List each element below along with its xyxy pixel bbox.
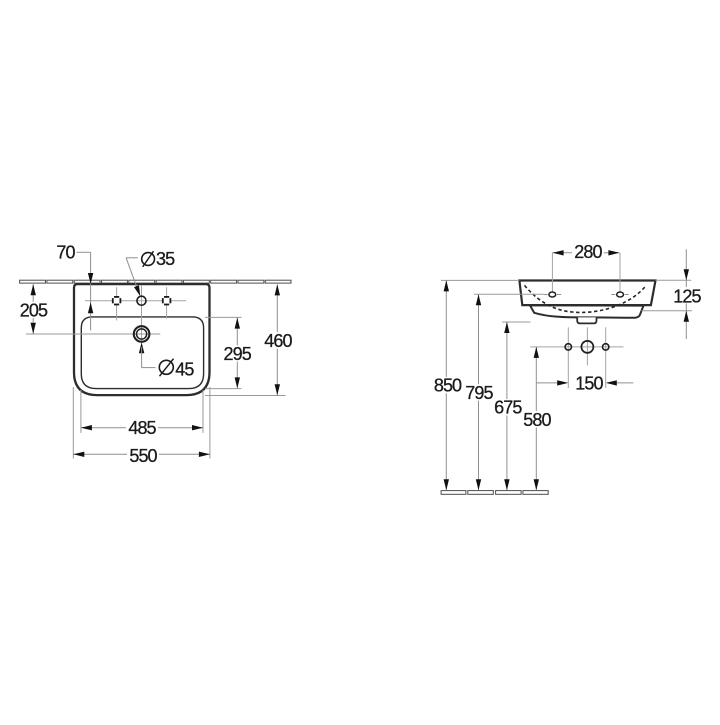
dimension 280 (hole spacing) [552, 242, 619, 262]
svg-text:580: 580 [523, 410, 551, 430]
svg-text:675: 675 [494, 398, 522, 418]
basin inner bowl outline [81, 317, 203, 389]
svg-text:125: 125 [673, 286, 701, 306]
centerline through right trap hole [605, 327, 607, 388]
svg-text:150: 150 [575, 374, 603, 394]
basin outer outline [74, 284, 210, 395]
svg-text:550: 550 [129, 446, 157, 466]
dimension 70 (top offset) [56, 243, 93, 331]
svg-text:850: 850 [434, 376, 462, 396]
svg-text:205: 205 [20, 301, 48, 321]
svg-text:35: 35 [156, 249, 175, 269]
dimension 125 (deck height) [642, 249, 703, 339]
centre trap fixing hole [581, 341, 593, 353]
centerline through middle tap hole [141, 286, 143, 343]
centerline through right fixing hole (deck) [619, 253, 621, 292]
right trap fixing hole [603, 344, 609, 350]
left trap fixing hole [565, 344, 571, 350]
basin skirt (lower bowl, side view) [530, 305, 644, 318]
basin deck (side view trapezoid) [519, 281, 655, 306]
dimension 295 (inner depth) [205, 317, 253, 388]
dimension 485 (inner width) [81, 390, 203, 438]
dimension 795 (height to fixing holes) [464, 294, 544, 490]
centerline through right tap hole [166, 287, 168, 318]
centerline through left trap hole [567, 327, 569, 388]
right optional tap hole (dashed) [162, 296, 171, 305]
svg-text:460: 460 [264, 331, 292, 351]
floor hatch line (right view) [441, 491, 548, 495]
dimension 850 (height to rim) [432, 280, 519, 490]
dimension 205 (left height) [19, 284, 49, 334]
svg-text:45: 45 [175, 359, 194, 379]
left deck mounting hole [544, 292, 562, 297]
centerline through left fixing hole (deck) [551, 253, 553, 292]
drain hole centerline (also 205 lower extension) [26, 333, 160, 335]
svg-text:295: 295 [224, 344, 252, 364]
hidden inner bowl dashed curve [525, 285, 647, 312]
dimension 675 (height to bowl bottom) [493, 322, 531, 490]
centerline through centre trap hole [586, 327, 588, 365]
middle tap hole [137, 296, 146, 305]
drain hole inner circle [137, 329, 147, 339]
label Ø45 with leader [139, 342, 195, 379]
svg-text:280: 280 [574, 242, 602, 262]
dimension 460 (total height) [205, 284, 293, 395]
dimension 550 (overall width) [73, 387, 210, 466]
wall hatch line (left view) [20, 280, 291, 283]
dimension 580 (height to trap holes) [522, 347, 624, 490]
label Ø35 with leader [126, 249, 175, 297]
dimension 150 (trap hole spacing) [537, 374, 634, 394]
drain hole outer circle [134, 326, 150, 342]
svg-text:795: 795 [465, 383, 493, 403]
right deck mounting hole [611, 292, 629, 297]
svg-text:485: 485 [128, 418, 156, 438]
drain outlet (side view) [577, 317, 596, 323]
centerline through left tap hole [116, 287, 118, 320]
left optional tap hole (dashed) [112, 296, 121, 305]
svg-text:70: 70 [56, 243, 75, 263]
tap holes horizontal centerline [85, 300, 186, 302]
